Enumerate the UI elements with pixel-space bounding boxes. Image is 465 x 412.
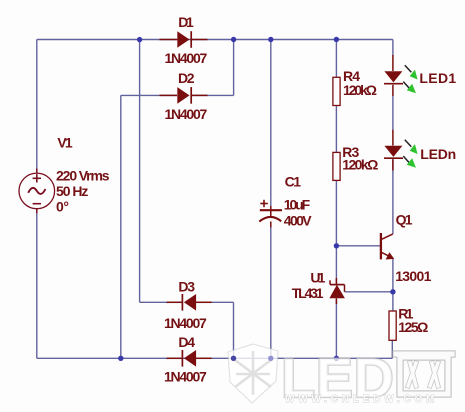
resistor R3 — [333, 152, 340, 180]
svg-text:1N4007: 1N4007 — [165, 106, 208, 122]
wire TL431 ref to emitter — [345, 291, 393, 293]
svg-text:400V: 400V — [284, 213, 312, 229]
node junction bottom D3 redraw — [231, 356, 236, 361]
diode D2 — [160, 87, 208, 104]
svg-text:1N4007: 1N4007 — [164, 315, 207, 331]
wire D3 drop to bottom rail — [233, 302, 235, 358]
wire top rail — [37, 39, 393, 41]
resistor R4 — [333, 77, 340, 105]
wire R4 to R3 — [335, 106, 337, 153]
LED LEDn — [384, 130, 418, 171]
diode D3 — [167, 294, 212, 311]
wire C1 column upper — [270, 40, 272, 207]
wire LED column top — [392, 40, 394, 56]
node junction bottom D3 — [231, 356, 236, 361]
svg-text:50 Hz: 50 Hz — [56, 183, 88, 199]
diode D4 — [167, 350, 212, 367]
svg-text:10uF: 10uF — [284, 197, 311, 213]
resistor R1 — [389, 311, 396, 340]
wire D2 cathode to riser — [191, 94, 234, 96]
svg-text:D4: D4 — [178, 334, 195, 350]
svg-text:V1: V1 — [57, 135, 73, 151]
watermark glyph net — [396, 354, 452, 394]
svg-text:1N4007: 1N4007 — [164, 368, 207, 384]
diode D1 — [160, 31, 208, 48]
node junction bottom C1 redraw — [268, 356, 273, 361]
svg-text:TL431: TL431 — [292, 285, 324, 301]
shunt regulator U1 TL431 — [329, 278, 345, 304]
wire LED1 to LEDn — [392, 96, 394, 131]
wire LEDn to Q1 collector — [392, 159, 394, 234]
wire base — [336, 245, 381, 247]
node junction bottom C1 — [268, 356, 273, 361]
watermark — [228, 344, 452, 409]
wire D1 junction to D3 column — [139, 40, 141, 303]
source V1 — [19, 169, 55, 214]
svg-text:220 Vrms: 220 Vrms — [56, 168, 110, 184]
svg-text:U1: U1 — [310, 270, 325, 286]
svg-text:1N4007: 1N4007 — [165, 50, 208, 66]
node junction top D1 — [137, 37, 142, 42]
watermark snowflake icon — [228, 344, 278, 403]
svg-text:0°: 0° — [56, 199, 69, 215]
wire TL431 anode to bottom rail — [335, 299, 337, 358]
node junction top D2 riser — [231, 37, 236, 42]
node junction top R4 — [334, 37, 339, 42]
wire R column upper — [335, 40, 337, 78]
wire D2 anode column — [120, 95, 122, 358]
svg-text:D1: D1 — [178, 14, 194, 30]
wire left rail lower — [36, 209, 38, 359]
node junction top C1 — [268, 37, 273, 42]
wire D2 row — [121, 94, 177, 96]
LED LED1 — [384, 55, 418, 96]
wire bottom rail — [37, 357, 393, 359]
wire D3 row right — [196, 301, 234, 303]
transistor Q1 — [381, 233, 394, 260]
svg-text:D2: D2 — [178, 70, 195, 86]
node junction ref/emitter — [390, 289, 395, 294]
svg-text:LED1: LED1 — [419, 70, 456, 86]
wire Q1 emitter down — [392, 258, 394, 311]
wire R1 bottom — [391, 340, 393, 358]
node junction bottom D4 — [118, 356, 123, 361]
svg-text:D3: D3 — [178, 279, 195, 295]
capacitor C1 — [259, 200, 282, 228]
wire R3 to TL431 — [335, 180, 337, 283]
svg-text:125Ω: 125Ω — [398, 319, 428, 335]
svg-text:120kΩ: 120kΩ — [342, 156, 378, 172]
svg-text:WWW.CNLEDW.COM: WWW.CNLEDW.COM — [285, 394, 438, 405]
svg-text:13001: 13001 — [395, 268, 431, 284]
svg-text:Q1: Q1 — [396, 212, 413, 228]
wire left rail upper — [36, 40, 38, 174]
svg-text:120kΩ: 120kΩ — [343, 82, 377, 98]
svg-text:LEDn: LEDn — [420, 146, 456, 162]
wire D2 riser to top rail — [233, 40, 235, 96]
wire D3 row left — [140, 301, 183, 303]
wire C1 column lower — [270, 226, 272, 358]
svg-text:C1: C1 — [285, 174, 302, 190]
node junction bottom TL431 — [334, 356, 339, 361]
node junction base — [334, 243, 339, 248]
